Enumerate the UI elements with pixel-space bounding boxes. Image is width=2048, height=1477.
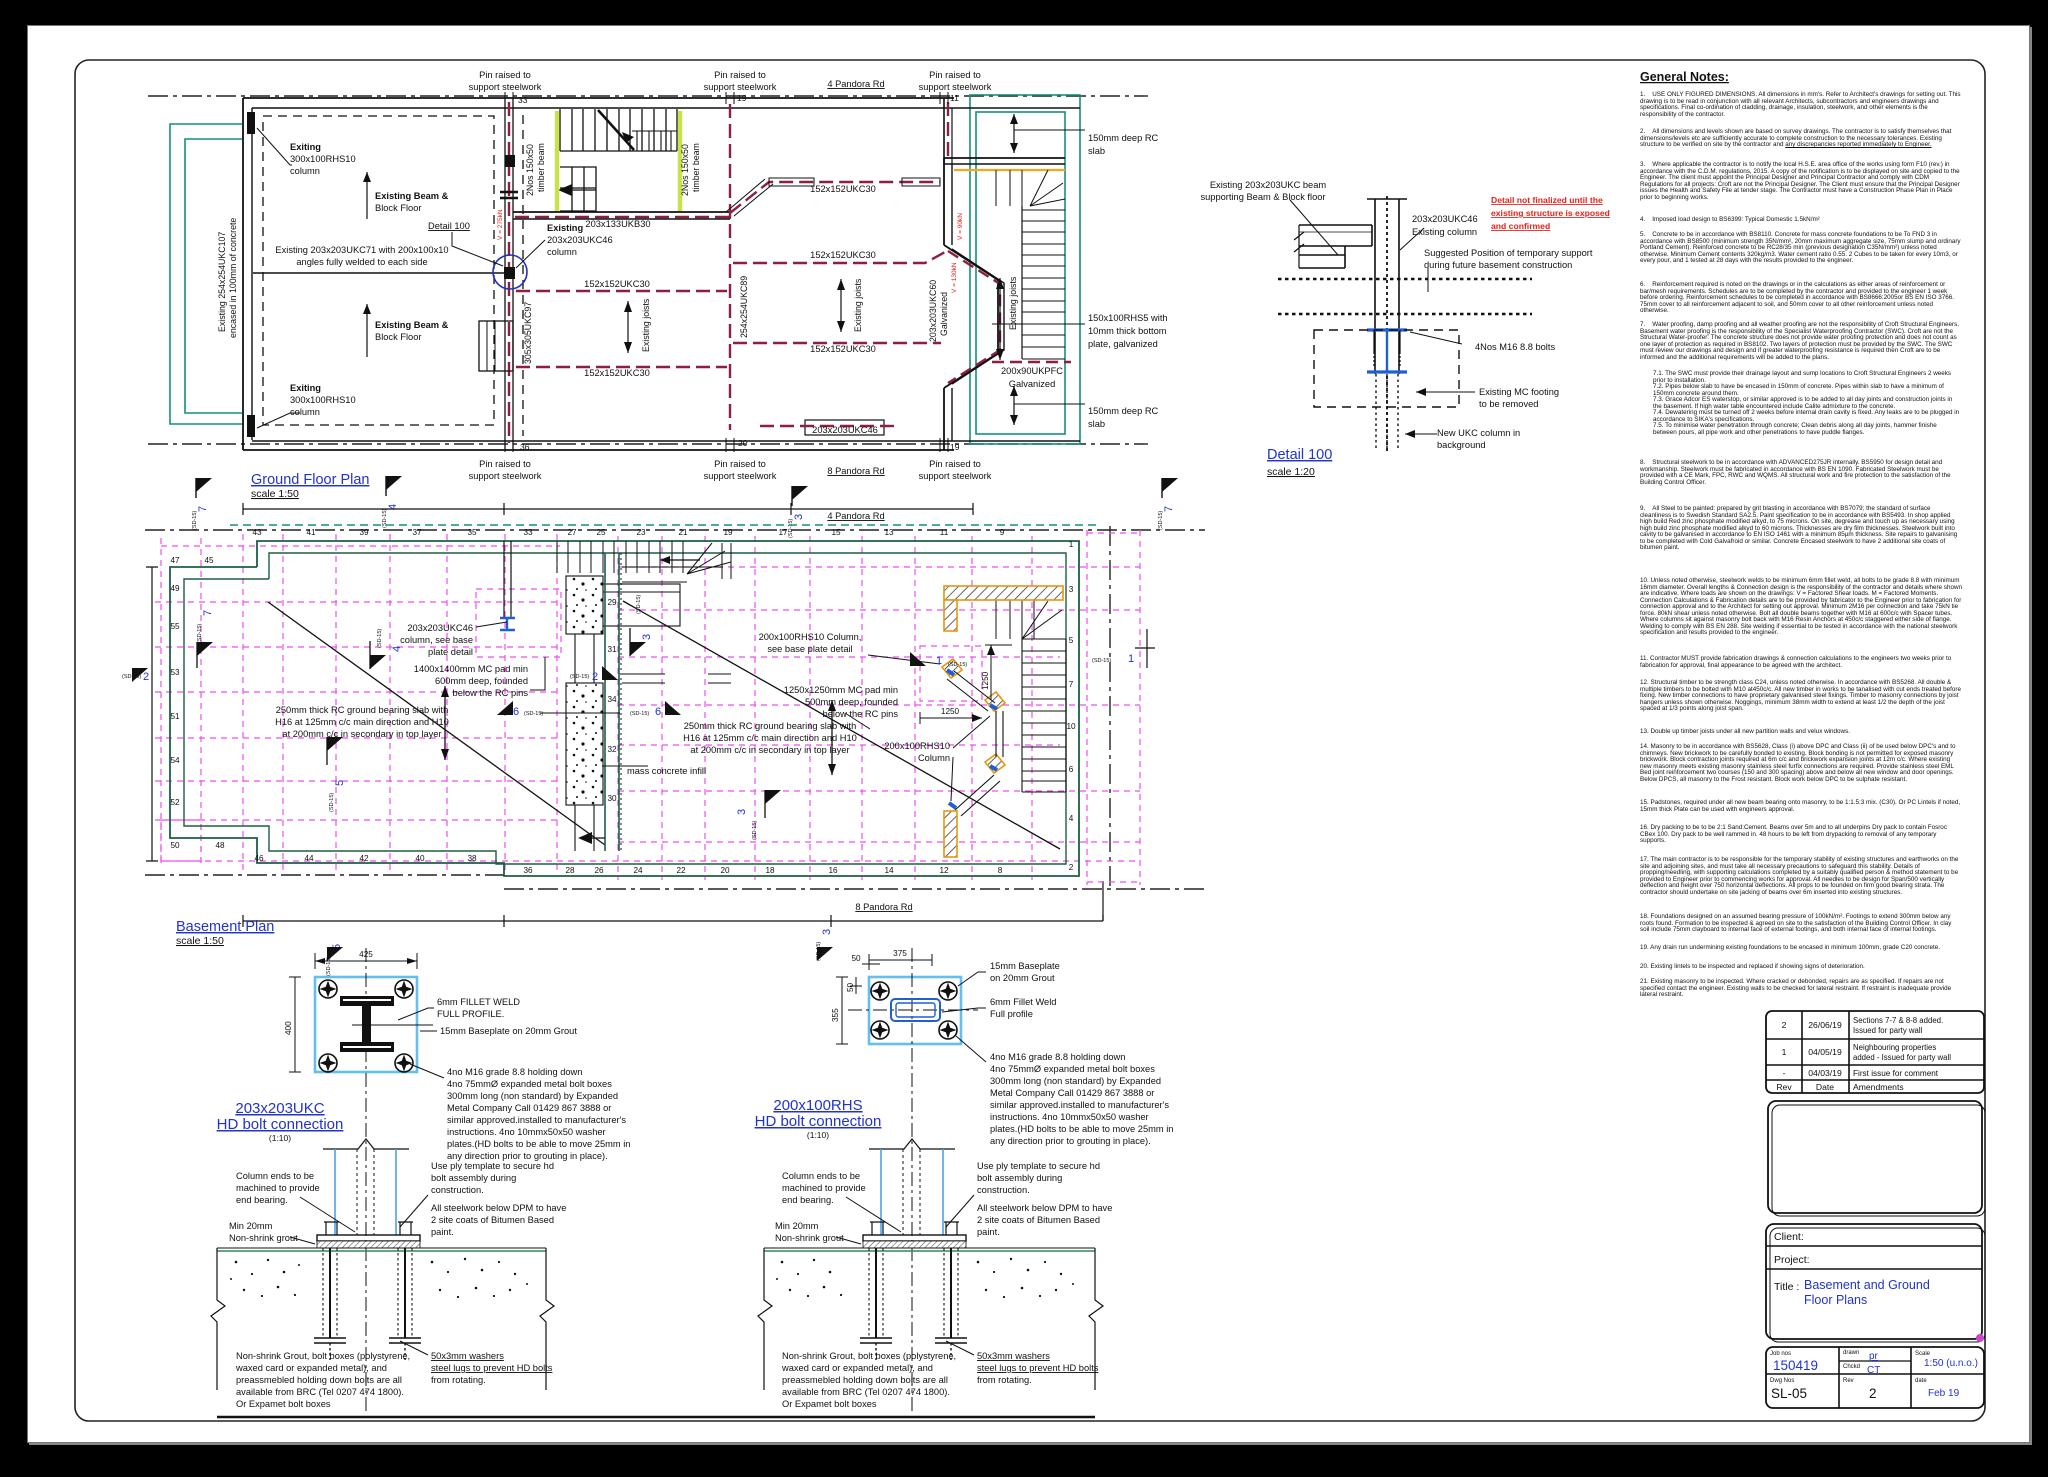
svg-text:construction.: construction. <box>977 1185 1030 1195</box>
svg-text:15mm Baseplate on 20mm Grout: 15mm Baseplate on 20mm Grout <box>440 1026 577 1036</box>
temporary support dotted row 1 <box>1278 278 1532 281</box>
svg-text:6: 6 <box>1069 765 1074 774</box>
teal enclosure left inner <box>185 139 242 413</box>
svg-text:end bearing.: end bearing. <box>782 1195 834 1205</box>
svg-text:54: 54 <box>170 756 180 765</box>
stair arrow <box>660 559 700 561</box>
new column blue flange top <box>1367 328 1407 331</box>
svg-text:Existing Beam &: Existing Beam & <box>375 191 449 201</box>
svg-text:19: 19 <box>723 528 733 537</box>
svg-text:4: 4 <box>391 646 403 652</box>
svg-text:Full profile: Full profile <box>990 1009 1033 1019</box>
maroon top right grid line <box>947 102 949 158</box>
svg-text:machined to provide: machined to provide <box>236 1183 320 1193</box>
svg-text:to be removed: to be removed <box>1479 399 1538 409</box>
teal enclosure right inner <box>976 112 1065 434</box>
dim 1250 vertical <box>990 645 992 700</box>
svg-text:(SD-15): (SD-15) <box>636 595 642 614</box>
texts basement <box>275 511 990 912</box>
svg-text:available from BRC (Tel 0207 4: available from BRC (Tel 0207 474 1800). <box>782 1387 950 1397</box>
svg-text:Existing 203x203UKC beam: Existing 203x203UKC beam <box>1210 180 1327 190</box>
svg-text:29: 29 <box>607 598 617 607</box>
svg-text:(SD-15): (SD-15) <box>377 629 383 648</box>
dim 355 <box>841 977 843 1044</box>
svg-text:4no 75mmØ expanded metal bolt: 4no 75mmØ expanded metal bolt boxes <box>990 1064 1155 1074</box>
svg-text:support steelwork: support steelwork <box>469 471 542 481</box>
mass concrete infill columns stippled <box>566 576 603 634</box>
svg-text:33: 33 <box>518 95 528 105</box>
svg-text:40: 40 <box>415 854 425 863</box>
leaders <box>300 1197 355 1232</box>
green wall outline outer <box>170 541 1079 876</box>
svg-text:250mm thick RC ground bearing: 250mm thick RC ground bearing slab with <box>276 705 449 715</box>
svg-text:Use ply template to secure hd: Use ply template to secure hd <box>431 1161 554 1171</box>
svg-text:32: 32 <box>607 745 617 754</box>
ukc46 leader <box>516 240 545 268</box>
baseplate blue square <box>315 977 417 1072</box>
splice symbol on party wall <box>500 191 518 193</box>
texts <box>1200 180 1592 450</box>
UKC I-section <box>340 996 394 1006</box>
client project title box <box>1766 1224 1982 1339</box>
revision rows <box>1766 1039 1984 1080</box>
crank outline top beam <box>726 179 765 212</box>
svg-text:10mm thick bottom: 10mm thick bottom <box>1088 326 1167 336</box>
svg-text:50x3mm washers: 50x3mm washers <box>977 1351 1050 1361</box>
svg-text:2: 2 <box>1782 1020 1787 1030</box>
red note <box>1491 195 1610 231</box>
svg-text:6mm FILLET WELD: 6mm FILLET WELD <box>437 997 520 1007</box>
svg-text:support steelwork: support steelwork <box>704 471 777 481</box>
svg-text:200x100RHS10: 200x100RHS10 <box>884 741 950 751</box>
svg-text:SL-05: SL-05 <box>1771 1386 1807 1401</box>
leader temp support <box>1427 268 1429 292</box>
svg-text:timber beam: timber beam <box>536 143 546 192</box>
svg-text:16: 16 <box>828 866 838 875</box>
section flag 1 right edge <box>1092 629 1155 668</box>
svg-text:Column: Column <box>918 753 950 763</box>
svg-text:(SD-15): (SD-15) <box>630 711 649 717</box>
dim 1250 horizontal <box>920 717 982 719</box>
left diagonal <box>268 602 605 845</box>
svg-text:(SD-15): (SD-15) <box>326 957 332 976</box>
svg-text:Feb 19: Feb 19 <box>1928 1388 1960 1399</box>
svg-text:at 200mm c/c in secondary in t: at 200mm c/c in secondary in top layer <box>690 745 849 755</box>
bolt stubs above plate <box>324 1222 413 1235</box>
orange hatched column piece mid bay <box>985 692 1005 711</box>
svg-text:Rev: Rev <box>1843 1378 1854 1384</box>
ground line <box>217 1247 546 1249</box>
svg-text:instructions. 4no 10mmx50x50 w: instructions. 4no 10mmx50x50 washer <box>447 1127 606 1137</box>
column web dotted <box>356 1149 358 1235</box>
beam vertical 254x254UKC89 <box>729 104 731 430</box>
teal dashed line top <box>230 524 1100 526</box>
svg-text:20: 20 <box>738 438 748 448</box>
rhs5 leader <box>992 323 1085 325</box>
svg-text:7: 7 <box>1069 680 1074 689</box>
svg-text:23: 23 <box>636 528 646 537</box>
svg-text:7: 7 <box>197 506 209 512</box>
svg-text:254x254UKC89: 254x254UKC89 <box>739 276 749 338</box>
magenta mark <box>1976 1334 1984 1342</box>
svg-text:Project:: Project: <box>1774 1254 1810 1266</box>
svg-text:37: 37 <box>412 528 422 537</box>
rc slab leader bottom <box>1013 386 1015 425</box>
svg-text:33: 33 <box>523 528 533 537</box>
bay wall double lines diagonal lower <box>955 775 1000 816</box>
stair arrow diagonal <box>598 110 634 150</box>
svg-text:500mm deep, founded: 500mm deep, founded <box>805 697 898 707</box>
svg-text:Min 20mm: Min 20mm <box>775 1221 819 1231</box>
block floor lines <box>1299 231 1372 233</box>
svg-text:Existing joists: Existing joists <box>853 278 863 332</box>
svg-text:8 Pandora Rd: 8 Pandora Rd <box>827 466 884 476</box>
svg-text:Rev: Rev <box>1776 1082 1792 1092</box>
HD bolt top-left <box>871 982 889 1000</box>
svg-text:Floor Plans: Floor Plans <box>1804 1293 1867 1307</box>
svg-text:paint.: paint. <box>431 1227 454 1237</box>
magenta grid verticals <box>161 530 1140 885</box>
blue flange bottom <box>1367 370 1407 373</box>
temporary support dotted row 2 <box>1278 313 1532 316</box>
dim 375 <box>869 959 932 961</box>
party wall double line <box>504 98 506 450</box>
svg-text:Non-shrink grout: Non-shrink grout <box>775 1233 844 1243</box>
basement right stair small flight <box>996 599 1034 639</box>
maroon PFC dash at stair foot <box>992 361 1071 363</box>
washer plates <box>860 1338 967 1343</box>
svg-text:Or Expamet bolt boxes: Or Expamet bolt boxes <box>782 1399 877 1409</box>
svg-text:Dwg Nos: Dwg Nos <box>1770 1378 1794 1384</box>
svg-text:Use ply template to secure hd: Use ply template to secure hd <box>977 1161 1100 1171</box>
HD bolt bottom-left <box>319 1054 337 1072</box>
svg-text:slab: slab <box>1088 146 1105 156</box>
speckles left <box>776 1259 842 1297</box>
svg-text:(SD-15): (SD-15) <box>524 711 543 717</box>
leader beam label <box>1290 200 1338 255</box>
svg-text:50: 50 <box>846 982 855 992</box>
wall ticks bottom <box>505 438 948 452</box>
section flag 3 <box>788 486 808 538</box>
svg-text:1250: 1250 <box>941 707 960 716</box>
beam 203x203UKC46 bottom box <box>805 420 884 435</box>
svg-text:Issued for party wall: Issued for party wall <box>1853 1026 1923 1035</box>
centreline horizontal <box>352 1024 433 1026</box>
svg-text:machined to provide: machined to provide <box>782 1183 866 1193</box>
arrow mc footing <box>1416 391 1475 393</box>
holding down note <box>447 1067 630 1161</box>
svg-text:drawn: drawn <box>1843 1350 1859 1356</box>
party wall grid numbers <box>607 598 617 803</box>
svg-text:Exiting: Exiting <box>290 383 321 393</box>
svg-text:below the RC pins: below the RC pins <box>453 688 529 698</box>
leader to existing RHS column label bottom <box>257 413 300 428</box>
dim 400 <box>294 977 296 1072</box>
chimney breast middle <box>479 321 513 371</box>
section flag 1 mid <box>910 652 967 668</box>
svg-text:203x133UKB30: 203x133UKB30 <box>585 219 650 229</box>
svg-text:3: 3 <box>641 634 653 640</box>
svg-text:Existing joists: Existing joists <box>641 298 651 352</box>
svg-text:36: 36 <box>520 442 530 452</box>
magenta rect bottom-left <box>161 820 201 861</box>
svg-text:scale 1:50: scale 1:50 <box>251 488 299 500</box>
ground line <box>764 1247 1095 1249</box>
svg-text:18: 18 <box>765 866 775 875</box>
internal wall below stair <box>513 211 730 213</box>
svg-text:Existing 203x203UKC71 with 200: Existing 203x203UKC71 with 200x100x10 <box>275 245 448 255</box>
svg-text:21: 21 <box>678 528 688 537</box>
centreline vertical <box>365 948 367 1147</box>
svg-text:39: 39 <box>359 528 369 537</box>
property dash-dot bottom left <box>145 874 504 876</box>
svg-text:2: 2 <box>143 671 149 683</box>
svg-text:50: 50 <box>851 954 861 963</box>
svg-text:(SD-15): (SD-15) <box>948 662 967 668</box>
svg-text:4no M16 grade 8.8 holding down: 4no M16 grade 8.8 holding down <box>990 1052 1125 1062</box>
svg-text:slab: slab <box>1088 419 1105 429</box>
rc slab leader top <box>1013 114 1015 153</box>
base line <box>217 1416 1095 1419</box>
svg-text:50x3mm washers: 50x3mm washers <box>431 1351 504 1361</box>
svg-text:1: 1 <box>1069 540 1074 549</box>
svg-text:Non-shrink Grout, bolt boxes (: Non-shrink Grout, bolt boxes (polystyren… <box>236 1351 410 1361</box>
existing beam section <box>1299 225 1372 268</box>
rhs column blue dots <box>947 670 997 808</box>
baseplate <box>863 1235 966 1241</box>
svg-text:during future basement constru: during future basement construction <box>1424 260 1572 270</box>
HD bolt bottom-right <box>395 1054 413 1072</box>
svg-text:36: 36 <box>523 866 533 875</box>
svg-text:CT: CT <box>1867 1365 1880 1376</box>
column flanges blue <box>334 1149 336 1235</box>
right wall upper <box>943 158 945 245</box>
section: column break top <box>323 1139 409 1149</box>
HD bolt top-left <box>319 980 337 998</box>
beam 152x152UKC30 middle room upper <box>516 290 727 292</box>
basement party wall green <box>604 553 606 851</box>
svg-text:New UKC column in: New UKC column in <box>1437 428 1520 438</box>
beam right end plate <box>1345 225 1372 268</box>
magenta grid horizontals <box>155 546 1140 861</box>
svg-text:Pin raised to: Pin raised to <box>479 70 531 80</box>
column ends label <box>229 1161 566 1409</box>
teal enclosure left outer <box>170 124 242 424</box>
labels <box>775 1161 1112 1409</box>
svg-text:end bearing.: end bearing. <box>236 1195 288 1205</box>
svg-text:date: date <box>1915 1378 1927 1384</box>
svg-text:background: background <box>1437 440 1486 450</box>
right stair flight treads <box>1022 210 1065 359</box>
svg-text:preassmebled holding down bolt: preassmebled holding down bolts are all <box>236 1375 402 1385</box>
svg-text:pr: pr <box>1869 1351 1879 1362</box>
section flag 5 bottom <box>326 944 343 976</box>
svg-text:V = 90kN: V = 90kN <box>957 213 964 240</box>
basement right stair treads <box>1022 639 1066 792</box>
svg-text:7: 7 <box>202 610 214 616</box>
svg-text:bolt assembly during: bolt assembly during <box>977 1173 1062 1183</box>
svg-text:Pin raised to: Pin raised to <box>479 459 531 469</box>
svg-text:11: 11 <box>950 93 959 103</box>
right diagonal <box>623 601 1060 849</box>
ground edges <box>758 1248 772 1390</box>
bolt stubs <box>870 1222 959 1235</box>
svg-text:6: 6 <box>655 706 661 718</box>
svg-text:Or Expamet bolt boxes: Or Expamet bolt boxes <box>236 1399 331 1409</box>
texts <box>217 70 1168 481</box>
footing dashed rect <box>1314 330 1459 407</box>
orange hatched column piece top bay <box>942 659 962 678</box>
svg-text:Pin raised to: Pin raised to <box>714 459 766 469</box>
svg-text:waxed card or expanded metal),: waxed card or expanded metal), and <box>235 1363 387 1373</box>
svg-text:support steelwork: support steelwork <box>919 471 992 481</box>
svg-text:any direction prior to groutin: any direction prior to grouting in place… <box>447 1151 608 1161</box>
svg-text:48: 48 <box>215 841 225 850</box>
grout strip <box>863 1241 966 1248</box>
svg-text:(1:10): (1:10) <box>269 1133 291 1143</box>
svg-text:similar approved.installed to: similar approved.installed to manufactur… <box>990 1100 1169 1110</box>
speckles right <box>977 1258 1074 1298</box>
leader bolts <box>1410 332 1462 344</box>
svg-text:any direction prior to groutin: any direction prior to grouting in place… <box>990 1136 1151 1146</box>
svg-text:Metal Company Call 01429 867 3: Metal Company Call 01429 867 3888 or <box>990 1088 1154 1098</box>
green wall outline inner <box>184 553 1066 864</box>
svg-text:51: 51 <box>170 712 180 721</box>
svg-text:and confirmed: and confirmed <box>1491 221 1550 231</box>
svg-text:35: 35 <box>467 528 477 537</box>
column block at detail100 <box>504 267 515 279</box>
joists arrow right <box>999 278 1001 360</box>
svg-text:30: 30 <box>607 794 617 803</box>
baseplate <box>317 1235 420 1241</box>
svg-text:1400x1400mm MC pad min: 1400x1400mm MC pad min <box>414 664 528 674</box>
existing column lines <box>1367 199 1407 374</box>
svg-text:24: 24 <box>633 866 643 875</box>
svg-text:203x203UKC46: 203x203UKC46 <box>1412 214 1478 224</box>
svg-text:300x100RHS10: 300x100RHS10 <box>290 395 356 405</box>
svg-text:Neighbouring properties: Neighbouring properties <box>1853 1043 1936 1052</box>
svg-text:300mm long (non standard) by E: 300mm long (non standard) by Expanded <box>990 1076 1161 1086</box>
leader to ukc46 <box>1400 228 1424 250</box>
svg-text:2Nos 150x50: 2Nos 150x50 <box>680 144 690 196</box>
svg-text:All steelwork below DPM to hav: All steelwork below DPM to have <box>431 1203 566 1213</box>
svg-text:(SD-15): (SD-15) <box>192 511 198 530</box>
leaders <box>846 1197 901 1232</box>
svg-text:49: 49 <box>170 584 180 593</box>
svg-text:(SD-15): (SD-15) <box>788 519 794 538</box>
svg-text:250mm thick RC ground bearing: 250mm thick RC ground bearing slab with <box>684 721 857 731</box>
bolt dotted tails below <box>1376 374 1398 448</box>
svg-text:existing structure is exposed: existing structure is exposed <box>1491 208 1610 218</box>
svg-text:2 site coats of Bitumen Based: 2 site coats of Bitumen Based <box>431 1215 554 1225</box>
HD bolt top-right <box>939 982 957 1000</box>
svg-text:encased in 100mm of concrete: encased in 100mm of concrete <box>228 218 238 338</box>
joists arrow mid right room <box>840 279 842 332</box>
svg-text:4 Pandora Rd: 4 Pandora Rd <box>827 79 884 89</box>
svg-text:Non-shrink grout: Non-shrink grout <box>229 1233 298 1243</box>
svg-text:4: 4 <box>1069 814 1074 823</box>
svg-text:similar approved.installed to: similar approved.installed to manufactur… <box>447 1115 626 1125</box>
svg-text:Detail 100: Detail 100 <box>1267 447 1332 463</box>
svg-text:152x152UKC30: 152x152UKC30 <box>810 184 876 194</box>
svg-text:plate, galvanized: plate, galvanized <box>1088 339 1158 349</box>
beam 152x152UKC30 right room mid <box>733 251 947 263</box>
section flag 7 right <box>1158 478 1178 530</box>
section flag 7 left <box>192 478 212 530</box>
section flag 6 right <box>630 701 681 718</box>
svg-text:04/03/19: 04/03/19 <box>1808 1068 1842 1078</box>
svg-text:Galvanized: Galvanized <box>1009 379 1056 389</box>
svg-text:Title :: Title : <box>1774 1281 1799 1293</box>
svg-text:FULL PROFILE.: FULL PROFILE. <box>437 1009 504 1019</box>
svg-text:203x203UKC46: 203x203UKC46 <box>547 235 613 245</box>
svg-text:15: 15 <box>831 528 841 537</box>
svg-text:Date: Date <box>1816 1082 1834 1092</box>
svg-text:available from BRC (Tel 0207 4: available from BRC (Tel 0207 474 1800). <box>236 1387 404 1397</box>
svg-text:supporting Beam & Block floor: supporting Beam & Block floor <box>1200 192 1325 202</box>
leader to existing RHS column label top <box>257 128 292 165</box>
svg-text:305x305UKC97: 305x305UKC97 <box>523 302 533 364</box>
ground edge left with break <box>211 1248 225 1390</box>
svg-text:column: column <box>290 407 320 417</box>
svg-text:Existing joists: Existing joists <box>1008 276 1018 330</box>
svg-text:600mm deep, founded: 600mm deep, founded <box>435 676 528 686</box>
wall ticks top <box>505 92 948 104</box>
wall right of stair to bay <box>729 206 731 219</box>
svg-text:HD bolt connection: HD bolt connection <box>217 1116 344 1133</box>
svg-text:8: 8 <box>998 866 1003 875</box>
svg-text:45: 45 <box>204 556 214 565</box>
revision table frame <box>1766 1011 1984 1093</box>
svg-text:04/05/19: 04/05/19 <box>1808 1047 1842 1057</box>
svg-text:Existing column: Existing column <box>1412 227 1477 237</box>
svg-text:preassmebled holding down bolt: preassmebled holding down bolts are all <box>782 1375 948 1385</box>
corner column top-left <box>247 112 255 134</box>
building left wall <box>242 98 244 450</box>
svg-text:31: 31 <box>607 645 617 654</box>
bay window walls <box>944 245 998 388</box>
svg-text:152x152UKC30: 152x152UKC30 <box>584 368 650 378</box>
svg-text:25: 25 <box>596 528 606 537</box>
svg-text:5: 5 <box>1069 636 1074 645</box>
svg-text:44: 44 <box>304 854 314 863</box>
svg-text:Existing 254x254UKC107: Existing 254x254UKC107 <box>217 232 227 332</box>
svg-text:1250x1250mm MC pad min: 1250x1250mm MC pad min <box>784 685 898 695</box>
joists arrow left <box>627 301 629 353</box>
section flag 2 mid <box>570 666 618 683</box>
svg-text:4 Pandora Rd: 4 Pandora Rd <box>827 511 884 521</box>
svg-text:Chckd: Chckd <box>1843 1364 1860 1370</box>
HD bolt top-right <box>395 980 413 998</box>
centreline section <box>365 1147 367 1415</box>
property dash-dot bottom right <box>504 888 1205 890</box>
svg-text:(SD-15): (SD-15) <box>329 793 335 812</box>
svg-text:at 200mm c/c in secondary in t: at 200mm c/c in secondary in top layer <box>282 729 441 739</box>
svg-text:150419: 150419 <box>1773 1358 1818 1373</box>
svg-text:355: 355 <box>831 1008 840 1022</box>
svg-text:50: 50 <box>170 841 180 850</box>
svg-text:Pin raised to: Pin raised to <box>714 70 766 80</box>
section column break top <box>869 1139 955 1149</box>
svg-text:152x152UKC30: 152x152UKC30 <box>810 344 876 354</box>
svg-text:5: 5 <box>334 780 346 786</box>
svg-text:V = 275kN: V = 275kN <box>497 209 504 240</box>
grid numbers right <box>1066 540 1076 872</box>
bolts below plate <box>1374 330 1400 352</box>
property line dash-dot bottom <box>148 443 1148 445</box>
svg-text:steel lugs to prevent HD bolts: steel lugs to prevent HD bolts <box>431 1363 553 1373</box>
svg-text:17: 17 <box>778 528 788 537</box>
